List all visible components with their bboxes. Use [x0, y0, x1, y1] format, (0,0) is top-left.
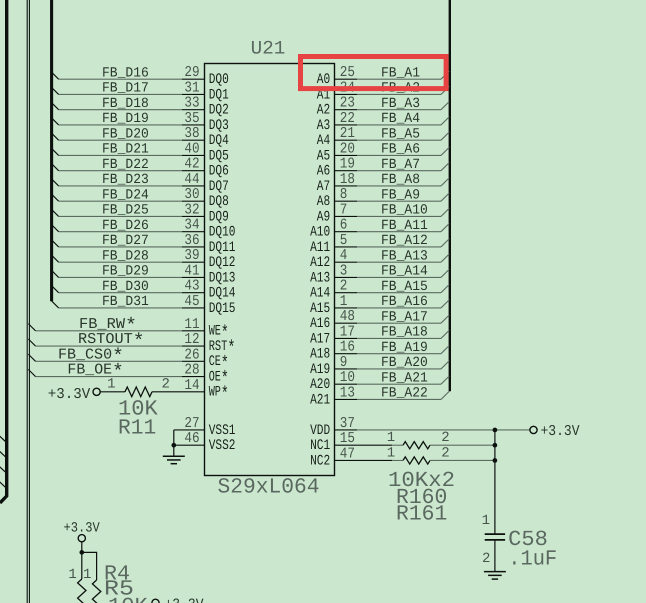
svg-text:DQ7: DQ7 [209, 179, 229, 195]
svg-text:FB_A18: FB_A18 [381, 325, 428, 341]
svg-text:DQ15: DQ15 [209, 301, 236, 317]
wire bus stub FB_A6 [441, 147, 449, 155]
svg-text:R161: R161 [396, 502, 447, 526]
pin lead U21 DQ9 [182, 215, 205, 217]
wire bus stub FB_A14 [441, 269, 449, 277]
wire bus stub FB_D19 [52, 118, 59, 125]
wire net FB_A15 [357, 292, 441, 294]
svg-text:FB_A20: FB_A20 [381, 355, 428, 371]
wire bus stub FB_D20 [52, 133, 59, 140]
svg-text:A8: A8 [317, 194, 330, 210]
pin lead U21 A7 [335, 185, 358, 187]
wire VDD to +3.3V [357, 429, 530, 431]
wire +3.3V to R11 [100, 391, 125, 393]
wire net FB_A1 [357, 78, 441, 80]
wire stub joining left-edge bus 4 [0, 481, 7, 488]
wire net FB_D24 [59, 200, 182, 202]
wire net FB_A7 [357, 170, 441, 172]
svg-text:R11: R11 [118, 417, 156, 441]
wire vertical bus (left edge) [0, 0, 7, 503]
svg-text:FB_A11: FB_A11 [381, 218, 428, 234]
wire NC2 to resistor [392, 459, 403, 461]
wire bus stub FB_A21 [441, 376, 449, 384]
svg-text:FB_A15: FB_A15 [381, 279, 428, 295]
svg-text:DQ8: DQ8 [209, 194, 229, 210]
pin lead U21 DQ15 [182, 307, 205, 309]
wire bus stub FB_A19 [441, 346, 449, 354]
svg-text:A5: A5 [317, 148, 330, 164]
wire VSS join [173, 430, 175, 456]
svg-text:FB_A5: FB_A5 [381, 126, 420, 142]
svg-text:A13: A13 [310, 270, 330, 286]
pin lead U21 CE* [182, 360, 205, 362]
wire bus stub FB_A16 [441, 300, 449, 308]
wire net FB_A5 [357, 139, 441, 141]
resistor R5 [92, 580, 100, 603]
svg-text:+3.3V: +3.3V [541, 423, 580, 440]
pin lead U21 DQ5 [182, 154, 205, 156]
wire stub FB_RW* [28, 324, 35, 331]
wire bus stub FB_D23 [52, 179, 59, 186]
wire net FB_CS0* [36, 360, 183, 362]
bus FB_A (right address bus) [449, 0, 451, 391]
svg-text:DQ3: DQ3 [209, 118, 229, 134]
svg-text:A14: A14 [310, 286, 330, 302]
pin lead U21 DQ7 [182, 185, 205, 187]
svg-text:A0: A0 [317, 72, 330, 88]
svg-text:46: 46 [184, 430, 199, 447]
svg-text:FB_A17: FB_A17 [381, 309, 428, 325]
wire bus stub FB_D17 [52, 87, 59, 94]
pin lead U21 A11 [335, 246, 358, 248]
wire net FB_A17 [357, 322, 441, 324]
svg-text:FB_A6: FB_A6 [381, 142, 420, 158]
pin lead U21 A10 [335, 231, 358, 233]
wire net FB_D29 [59, 276, 182, 278]
svg-text:A6: A6 [317, 164, 330, 180]
svg-text:FB_A7: FB_A7 [381, 157, 420, 173]
svg-text:FB_A1: FB_A1 [381, 65, 420, 81]
svg-text:1: 1 [387, 445, 395, 461]
pin lead U21 A9 [335, 215, 358, 217]
pin lead NC2 [335, 459, 393, 461]
svg-text:FB_A22: FB_A22 [381, 386, 428, 402]
svg-text:A19: A19 [310, 362, 330, 378]
wire net FB_D27 [59, 246, 182, 248]
svg-text:2: 2 [441, 430, 449, 446]
svg-text:+3.3V: +3.3V [48, 386, 91, 403]
junction NC2 [493, 458, 498, 463]
svg-text:FB_D16: FB_D16 [102, 65, 149, 81]
pin lead U21 A14 [335, 292, 358, 294]
svg-text:A16: A16 [310, 316, 330, 332]
resistor R4 [78, 579, 86, 603]
svg-text:FB_D25: FB_D25 [102, 203, 149, 219]
svg-text:NC1: NC1 [310, 438, 330, 454]
svg-text:FB_A8: FB_A8 [381, 172, 420, 188]
resistor R11 [125, 387, 152, 397]
pin lead U21 A18 [335, 353, 358, 355]
svg-text:DQ1: DQ1 [209, 87, 229, 103]
svg-text:FB_D17: FB_D17 [102, 81, 149, 97]
wire stub joining left-edge bus 3 [0, 466, 7, 473]
svg-text:2: 2 [482, 551, 490, 567]
wire bus stub FB_D26 [52, 225, 59, 232]
svg-text:FB_A12: FB_A12 [381, 233, 428, 249]
svg-text:10K: 10K [108, 595, 148, 603]
wire stub FB_OE* [28, 369, 35, 376]
ground (C58) [484, 572, 506, 580]
svg-text:2: 2 [441, 445, 449, 461]
wire net FB_A10 [357, 215, 441, 217]
svg-text:A3: A3 [317, 118, 330, 134]
svg-text:NC2: NC2 [310, 453, 330, 469]
svg-text:DQ0: DQ0 [209, 72, 229, 88]
wire +3.3V down [81, 542, 83, 553]
pin lead U21 DQ6 [182, 170, 205, 172]
svg-text:A21: A21 [310, 392, 330, 408]
wire net FB_OE* [36, 376, 183, 378]
wire bus stub FB_A11 [441, 224, 449, 232]
svg-text:DQ13: DQ13 [209, 270, 236, 286]
wire bus stub FB_A8 [441, 178, 449, 186]
svg-text:FB_A4: FB_A4 [381, 111, 420, 127]
junction VSS [171, 443, 176, 448]
wire NC1 to resistor [392, 444, 403, 446]
wire vertical net 1 [26, 0, 28, 603]
svg-text:FB_D26: FB_D26 [102, 218, 149, 234]
pin lead U21 DQ10 [182, 231, 205, 233]
svg-text:DQ14: DQ14 [209, 286, 236, 302]
wire bus stub FB_A10 [441, 208, 449, 216]
pin lead U21 WE* [182, 330, 205, 332]
svg-text:A12: A12 [310, 255, 330, 271]
wire VSS2 [174, 444, 205, 446]
wire bus stub FB_D27 [52, 240, 59, 247]
svg-text:FB_D29: FB_D29 [102, 264, 149, 280]
svg-text:FB_D19: FB_D19 [102, 111, 149, 127]
wire net FB_A6 [357, 154, 441, 156]
wire net FB_A12 [357, 246, 441, 248]
svg-text:1: 1 [68, 567, 76, 583]
wire net FB_A11 [357, 231, 441, 233]
svg-text:FB_A13: FB_A13 [381, 248, 428, 264]
svg-text:DQ5: DQ5 [209, 148, 229, 164]
wire net FB_RW* [36, 330, 183, 332]
svg-text:14: 14 [184, 377, 199, 394]
power terminal +3.3V (R11) [93, 388, 100, 395]
wire resistor to +3.3V net (NC1) [430, 444, 495, 446]
svg-text:13: 13 [340, 384, 355, 401]
power terminal +3.3V (bottom) [78, 535, 85, 542]
svg-text:1: 1 [387, 430, 395, 446]
pin lead U21 A17 [335, 337, 358, 339]
wire +3.3V rail down to C58 [494, 430, 496, 534]
svg-text:S29xL064: S29xL064 [218, 475, 320, 499]
highlight box (red) around A0/pin25/FB_A1 [301, 57, 447, 89]
svg-text:DQ2: DQ2 [209, 103, 229, 119]
wire bus stub FB_A17 [441, 315, 449, 323]
svg-text:DQ10: DQ10 [209, 225, 236, 241]
wire bus stub FB_D29 [52, 270, 59, 277]
pin lead U21 RST* [182, 345, 205, 347]
IC U21 body [205, 64, 335, 476]
svg-text:A9: A9 [317, 209, 330, 225]
wire bus stub FB_A12 [441, 239, 449, 247]
svg-text:A11: A11 [310, 240, 330, 256]
wire net FB_D21 [59, 154, 182, 156]
pin lead U21 DQ11 [182, 246, 205, 248]
svg-text:FB_A19: FB_A19 [381, 340, 428, 356]
resistor R161 [403, 457, 430, 464]
wire bus stub FB_A22 [441, 391, 449, 399]
wire bus stub FB_A20 [441, 361, 449, 369]
svg-text:FB_D21: FB_D21 [102, 142, 149, 158]
wire bus stub FB_A18 [441, 330, 449, 338]
wire stub FB_CS0* [28, 354, 35, 361]
wire net FB_D18 [59, 109, 182, 111]
pin lead U21 A21 [335, 398, 358, 400]
wire R11 to WP* [152, 391, 205, 393]
wire bus stub FB_A3 [441, 102, 449, 110]
svg-text:FB_A10: FB_A10 [381, 203, 428, 219]
svg-text:VSS1: VSS1 [209, 423, 236, 439]
wire vertical net 2 [28, 0, 30, 603]
pin lead U21 A12 [335, 261, 358, 263]
wire stub joining left-edge bus 1 [0, 436, 7, 443]
wire net RSTOUT* [36, 345, 183, 347]
svg-text:A2: A2 [317, 103, 330, 119]
wire bus stub FB_A2 [441, 86, 449, 94]
wire bus stub FB_D30 [52, 286, 59, 293]
pin lead U21 DQ3 [182, 124, 205, 126]
svg-text:A4: A4 [317, 133, 330, 149]
wire stub joining left-edge bus 2 [0, 451, 7, 458]
resistor R160 [403, 442, 430, 449]
junction VDD [493, 428, 498, 433]
pin lead U21 DQ1 [182, 93, 205, 95]
svg-text:FB_D31: FB_D31 [102, 294, 149, 310]
wire net FB_A21 [357, 383, 441, 385]
wire bus stub FB_D22 [52, 164, 59, 171]
svg-text:FB_D30: FB_D30 [102, 279, 149, 295]
svg-text:+3.3V: +3.3V [64, 521, 101, 537]
pin lead U21 DQ14 [182, 292, 205, 294]
svg-text:FB_A14: FB_A14 [381, 264, 428, 280]
wire net FB_D23 [59, 185, 182, 187]
wire C58 to ground [494, 540, 496, 572]
svg-text:FB_D23: FB_D23 [102, 172, 149, 188]
svg-text:1: 1 [83, 567, 91, 583]
pin lead U21 DQ13 [182, 276, 205, 278]
wire resistor to +3.3V net (NC2) [430, 459, 495, 461]
wire net FB_D26 [59, 231, 182, 233]
svg-text:FB_D22: FB_D22 [102, 157, 149, 173]
pin lead VDD [335, 429, 358, 431]
wire bus stub FB_A13 [441, 254, 449, 262]
svg-text:FB_D20: FB_D20 [102, 126, 149, 142]
wire bus stub FB_A4 [441, 117, 449, 125]
wire bus stub FB_D28 [52, 255, 59, 262]
wire net FB_D16 [59, 78, 182, 80]
svg-text:FB_A3: FB_A3 [381, 96, 420, 112]
svg-text:DQ9: DQ9 [209, 209, 229, 225]
wire net FB_D22 [59, 170, 182, 172]
wire bus stub FB_A9 [441, 193, 449, 201]
wire net FB_D28 [59, 261, 182, 263]
pin lead U21 A8 [335, 200, 358, 202]
wire net FB_A19 [357, 353, 441, 355]
wire net FB_A4 [357, 124, 441, 126]
wire bus stub FB_D16 [52, 72, 59, 79]
wire net FB_A18 [357, 337, 441, 339]
pin lead U21 A2 [335, 109, 358, 111]
pin lead U21 DQ12 [182, 261, 205, 263]
svg-text:A18: A18 [310, 347, 330, 363]
svg-text:+3.3V: +3.3V [165, 596, 204, 603]
wire net FB_D30 [59, 292, 182, 294]
wire net FB_A2 [357, 93, 441, 95]
wire bus stub FB_D18 [52, 103, 59, 110]
wire bus stub FB_D25 [52, 209, 59, 216]
svg-text:A17: A17 [310, 331, 330, 347]
wire net FB_A8 [357, 185, 441, 187]
wire bus stub FB_A15 [441, 285, 449, 293]
svg-text:DQ11: DQ11 [209, 240, 236, 256]
svg-text:VSS2: VSS2 [209, 438, 236, 454]
wire net FB_A13 [357, 261, 441, 263]
pin lead NC1 [335, 444, 393, 446]
wire net FB_D19 [59, 124, 182, 126]
svg-text:FB_D24: FB_D24 [102, 187, 149, 203]
ground (VSS) [163, 456, 185, 464]
wire net FB_A3 [357, 109, 441, 111]
junction +3.3V bottom [79, 550, 84, 555]
pin lead U21 A3 [335, 124, 358, 126]
bus FB_D (left data bus) [50, 0, 53, 301]
pin lead U21 A13 [335, 276, 358, 278]
capacitor C58 [485, 534, 505, 540]
wire net FB_A16 [357, 307, 441, 309]
junction NC1 [493, 443, 498, 448]
svg-text:FB_D28: FB_D28 [102, 248, 149, 264]
pin lead U21 A6 [335, 170, 358, 172]
power terminal +3.3V (right) [530, 426, 537, 433]
svg-text:FB_A21: FB_A21 [381, 370, 428, 386]
svg-text:1: 1 [482, 513, 490, 529]
pin lead U21 A1 [335, 93, 358, 95]
pin lead U21 A16 [335, 322, 358, 324]
pin lead U21 DQ2 [182, 109, 205, 111]
wire VSS1 [174, 429, 205, 431]
wire stub RSTOUT* [28, 339, 35, 346]
svg-text:45: 45 [184, 293, 199, 310]
svg-text:FB_A16: FB_A16 [381, 294, 428, 310]
svg-text:FB_A9: FB_A9 [381, 187, 420, 203]
svg-text:A10: A10 [310, 225, 330, 241]
svg-text:A7: A7 [317, 179, 330, 195]
pin lead U21 DQ4 [182, 139, 205, 141]
wire branch to R5 [82, 552, 97, 580]
svg-text:DQ6: DQ6 [209, 164, 229, 180]
wire net FB_D31 [59, 307, 182, 309]
wire bus stub FB_A5 [441, 132, 449, 140]
svg-text:A15: A15 [310, 301, 330, 317]
pin lead U21 DQ8 [182, 200, 205, 202]
wire bus stub FB_A7 [441, 163, 449, 171]
wire net FB_A9 [357, 200, 441, 202]
svg-text:FB_D27: FB_D27 [102, 233, 149, 249]
pin lead U21 A19 [335, 368, 358, 370]
wire net FB_A14 [357, 276, 441, 278]
svg-text:2: 2 [161, 377, 169, 393]
wire bus stub FB_A1 [441, 71, 449, 79]
pin lead U21 DQ0 [182, 78, 205, 80]
wire net FB_D25 [59, 215, 182, 217]
wire bus stub FB_D24 [52, 194, 59, 201]
svg-text:1: 1 [107, 377, 115, 393]
pin lead U21 A5 [335, 154, 358, 156]
svg-text:.1uF: .1uF [508, 548, 557, 572]
pin lead U21 OE* [182, 376, 205, 378]
pin lead U21 A0 [335, 78, 358, 80]
pin lead U21 A20 [335, 383, 358, 385]
svg-text:U21: U21 [251, 38, 286, 60]
wire net FB_D20 [59, 139, 182, 141]
wire net FB_A20 [357, 368, 441, 370]
wire net FB_D17 [59, 93, 182, 95]
wire bus stub FB_D21 [52, 148, 59, 155]
svg-text:FB_D18: FB_D18 [102, 96, 149, 112]
svg-text:DQ12: DQ12 [209, 255, 236, 271]
svg-text:DQ4: DQ4 [209, 133, 229, 149]
svg-text:A20: A20 [310, 377, 330, 393]
power terminal +3.3V (bottom cut) [152, 599, 159, 603]
wire net FB_A22 [357, 398, 441, 400]
wire to R4 [81, 552, 83, 579]
wire bus stub FB_D31 [52, 301, 59, 308]
pin lead U21 A15 [335, 307, 358, 309]
svg-text:VDD: VDD [310, 423, 330, 439]
pin lead U21 A4 [335, 139, 358, 141]
svg-text:47: 47 [340, 445, 355, 462]
